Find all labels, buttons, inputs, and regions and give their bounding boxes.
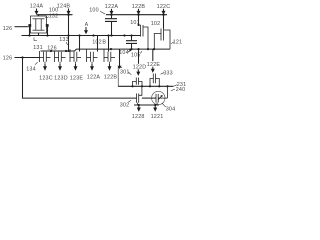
svg-text:304: 304 (166, 107, 176, 113)
block 301 corner (118, 67, 122, 86)
wire 126 input1 (15, 26, 29, 28)
wire busA (22, 35, 141, 37)
svg-text:123C: 123C (39, 75, 53, 81)
capacitor 104 (126, 36, 137, 50)
transistor 301 (133, 78, 143, 87)
component 132 (28, 15, 48, 36)
svg-text:333: 333 (163, 71, 173, 77)
label 231 (174, 82, 187, 88)
junction rail1 x68 (67, 14, 69, 16)
svg-text:B: B (102, 40, 106, 46)
arrow 122A2 (90, 64, 94, 71)
svg-text:301: 301 (120, 70, 130, 76)
wire line104 (134, 104, 159, 106)
arrow 123D (58, 64, 62, 71)
svg-text:134: 134 (26, 67, 36, 73)
svg-text:122E: 122E (147, 62, 161, 68)
svg-text:122A: 122A (87, 75, 101, 81)
label 134 (26, 62, 38, 72)
wire gate line 126 (15, 57, 40, 59)
svg-text:105: 105 (131, 53, 141, 59)
gate riser T4 (97, 36, 99, 52)
arrow 124B (67, 9, 71, 15)
gate riser T5 (108, 36, 110, 52)
arrow 122A (110, 9, 114, 15)
label 304 (162, 103, 175, 112)
svg-text:126: 126 (47, 45, 57, 51)
svg-text:100: 100 (89, 8, 99, 14)
transistor 333 (150, 74, 159, 87)
wire L to output stage (23, 58, 137, 99)
transistor T2 (55, 51, 66, 64)
wire 122B drop (138, 15, 140, 25)
arrow 122B2 (108, 64, 112, 71)
transistor 304 circled (152, 86, 168, 105)
svg-text:1228: 1228 (132, 114, 145, 120)
arrow 123C (43, 64, 47, 71)
arrow 123E (74, 64, 78, 71)
arrow 124A (35, 9, 39, 15)
svg-text:122D: 122D (133, 65, 147, 71)
wire row rail (41, 49, 171, 51)
transistor 302 (137, 86, 142, 105)
wire block input (118, 49, 122, 69)
transistor 101 (139, 25, 149, 49)
svg-text:133: 133 (59, 37, 69, 43)
label 240 (171, 87, 185, 93)
svg-text:123D: 123D (54, 75, 68, 81)
svg-text:123E: 123E (70, 75, 84, 81)
wire 122D drop (138, 49, 140, 64)
svg-text:A: A (85, 22, 89, 28)
svg-text:121: 121 (173, 40, 183, 46)
wire 124B drop (68, 15, 70, 51)
arrow 122B (137, 9, 141, 15)
svg-text:122B: 122B (104, 75, 118, 81)
transistor T3 (70, 49, 81, 64)
svg-text:104: 104 (119, 50, 129, 56)
wire 122C drop (163, 15, 165, 29)
transistor 102r (154, 29, 170, 50)
svg-text:302: 302 (120, 103, 130, 109)
label 121 (171, 40, 182, 46)
node A (84, 22, 89, 34)
svg-text:126: 126 (3, 26, 13, 32)
arrow 122G (153, 105, 157, 111)
arrow 122F (137, 105, 141, 111)
label 302 (120, 100, 131, 108)
arrow 122D (136, 69, 140, 76)
svg-text:1221: 1221 (151, 114, 164, 120)
svg-text:126: 126 (3, 56, 13, 62)
wire rail2 (106, 14, 167, 16)
svg-text:101: 101 (130, 20, 140, 26)
gate riser T3 (79, 36, 81, 52)
transistor T1 (40, 51, 51, 64)
label 105 (131, 51, 142, 58)
transistor T5 (104, 49, 115, 64)
label 104 (119, 49, 132, 56)
svg-text:240: 240 (176, 87, 186, 93)
transistor T4 (87, 49, 98, 64)
wire mid row4 (142, 97, 156, 99)
svg-text:102: 102 (151, 21, 161, 27)
arrow 122C (162, 9, 166, 15)
arrow 122E (151, 67, 155, 73)
label 100 pointer (89, 8, 105, 15)
wire rail86 (118, 85, 173, 87)
svg-text:131: 131 (33, 45, 43, 51)
wire rail1 (37, 14, 73, 16)
label 333 (161, 71, 173, 77)
svg-text:132: 132 (49, 14, 59, 20)
wire 122E drop (152, 49, 154, 61)
capacitor 122A (105, 15, 117, 36)
label 301 (120, 70, 131, 76)
